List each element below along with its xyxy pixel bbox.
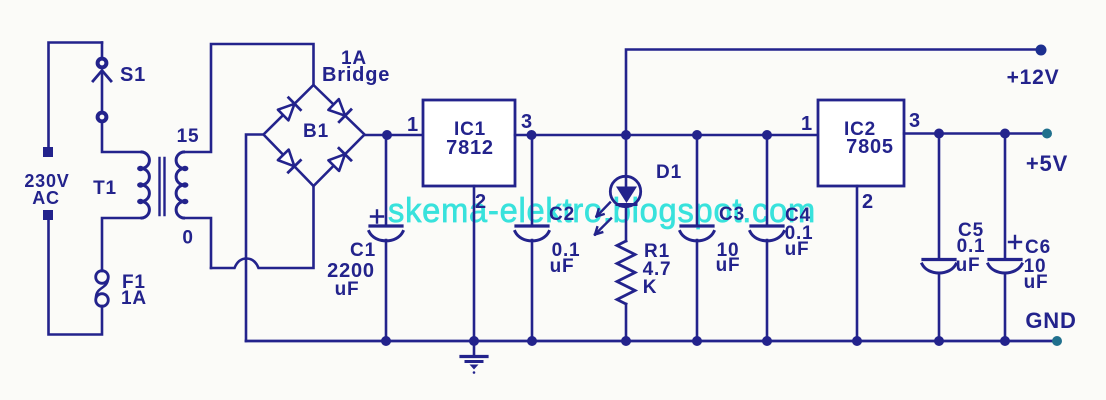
svg-text:1: 1	[407, 114, 419, 136]
transformer core	[160, 158, 165, 215]
bridge diode bottom-left	[278, 150, 295, 167]
svg-text:skema-elektro.blogspot.com: skema-elektro.blogspot.com	[388, 192, 816, 230]
svg-text:C6: C6	[1025, 237, 1051, 258]
resistor R1	[617, 241, 635, 304]
capacitor C5	[938, 134, 941, 259]
node: C5 top	[934, 129, 944, 139]
bridge diamond	[264, 85, 365, 186]
node: C4 top	[762, 130, 772, 140]
svg-text:uF: uF	[785, 239, 810, 260]
capacitor C4	[766, 135, 769, 224]
wire: secondary top to bridge top	[183, 44, 314, 152]
node: C6 bottom	[1000, 336, 1010, 346]
transformer T1 secondary winding	[176, 152, 183, 218]
wire: switch to transformer primary top	[102, 122, 143, 152]
svg-text:D1: D1	[656, 162, 682, 183]
svg-text:GND: GND	[1025, 308, 1076, 333]
node: D1 top	[621, 130, 631, 140]
bridge diode bottom-right	[328, 154, 345, 171]
svg-text:uF: uF	[716, 255, 741, 276]
wire: switch top stub	[101, 43, 104, 59]
svg-text:uF: uF	[956, 255, 981, 276]
IC1 box	[423, 100, 515, 186]
svg-text:uF: uF	[335, 279, 360, 300]
svg-text:0.1: 0.1	[957, 236, 986, 257]
node: IC1 pin3 / C2	[527, 130, 537, 140]
wire: bridge left corner to ground rail	[246, 135, 264, 342]
switch S1	[98, 59, 107, 68]
wire: 0 terminal to bridge bottom with hop	[211, 186, 314, 268]
svg-text:S1: S1	[120, 64, 146, 86]
svg-text:3: 3	[521, 111, 533, 133]
wire: IC1 pin3 rail to IC2	[515, 134, 818, 137]
capacitor C6	[1004, 134, 1007, 259]
IC2 pin2 wire	[856, 186, 859, 341]
svg-text:15: 15	[177, 126, 200, 147]
node: C5 bottom	[934, 336, 944, 346]
+12V terminal	[1036, 45, 1047, 56]
wire: fuse to AC bottom	[49, 220, 103, 335]
wire: D1 top stub	[625, 135, 628, 187]
node: IC2 pin2 bottom	[852, 336, 862, 346]
IC2 box	[818, 100, 904, 186]
node: C3 top	[692, 130, 702, 140]
svg-text:7805: 7805	[846, 136, 894, 158]
bridge diode top-left	[278, 104, 295, 121]
svg-text:1: 1	[801, 113, 813, 135]
node: C1 bottom	[381, 336, 391, 346]
wire: +12V riser	[626, 50, 1036, 136]
AC terminal bottom	[43, 210, 53, 220]
node: C3 bottom	[692, 336, 702, 346]
wire: D1 to R1	[625, 205, 628, 241]
bridge diode top-right	[328, 99, 345, 116]
svg-text:Bridge: Bridge	[322, 64, 390, 86]
svg-text:3: 3	[909, 110, 921, 132]
svg-text:uF: uF	[550, 256, 575, 277]
LED D1	[610, 176, 640, 206]
wire: primary bottom to fuse	[102, 218, 143, 271]
ground symbol	[473, 341, 476, 355]
node: C2 bottom	[527, 336, 537, 346]
wire: AC top to switch	[49, 43, 103, 147]
svg-text:2: 2	[862, 191, 874, 213]
capacitor C3	[696, 135, 699, 224]
node: C6 top	[1000, 129, 1010, 139]
svg-text:K: K	[643, 277, 658, 298]
svg-text:C1: C1	[350, 240, 376, 261]
svg-text:+12V: +12V	[1007, 66, 1060, 89]
svg-text:1A: 1A	[121, 288, 147, 309]
svg-text:0: 0	[182, 228, 193, 249]
svg-text:AC: AC	[32, 188, 60, 208]
svg-text:uF: uF	[1024, 272, 1049, 293]
svg-text:+5V: +5V	[1026, 151, 1068, 176]
fuse F1	[96, 271, 109, 284]
wire: +5V rail	[904, 132, 1042, 135]
GND terminal	[1052, 336, 1062, 346]
node: pin2 ground	[469, 336, 479, 346]
node: R1 bottom	[621, 336, 631, 346]
svg-text:T1: T1	[93, 178, 117, 199]
svg-text:7812: 7812	[446, 137, 494, 159]
ground rail	[246, 340, 1053, 343]
wire: bridge right to IC1 pin1	[365, 134, 424, 137]
IC1 pin2 wire	[473, 186, 476, 341]
node: C1 top	[382, 130, 392, 140]
svg-text:B1: B1	[303, 121, 329, 142]
transformer T1 primary winding	[142, 152, 149, 218]
capacitor C1	[385, 135, 388, 224]
node: C4 bottom	[762, 336, 772, 346]
capacitor C2	[531, 135, 534, 224]
+5V terminal	[1042, 129, 1052, 139]
wire: secondary bottom stub	[183, 218, 211, 268]
AC terminal top	[43, 147, 53, 157]
